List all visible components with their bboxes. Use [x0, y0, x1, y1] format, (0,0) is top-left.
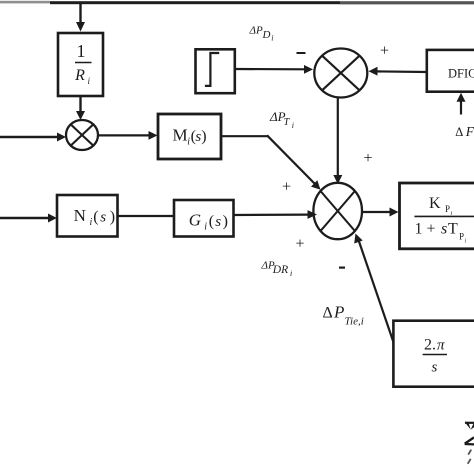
wire from S1 to Mi(s): [98, 131, 158, 140]
svg-text:ΔP: ΔP: [249, 25, 263, 37]
label ΔP_Ti: [269, 109, 294, 130]
svg-text:R: R: [74, 67, 85, 84]
svg-text:P: P: [333, 303, 344, 322]
svg-text:T: T: [448, 221, 458, 238]
svg-text:K: K: [429, 195, 441, 212]
svg-text:i: i: [292, 121, 294, 130]
block DFIG (cropped at right edge): [427, 50, 474, 92]
svg-text:M: M: [173, 126, 188, 145]
svg-text:i: i: [204, 222, 207, 233]
label ΔP_DRi: [261, 260, 293, 279]
block 1/Ri: [58, 33, 103, 96]
wire from Gi(s) into S3: [234, 210, 318, 219]
svg-text:+: +: [380, 43, 389, 60]
svg-text:+: +: [295, 236, 304, 253]
svg-text:DR: DR: [272, 264, 288, 276]
wire from S3 into Kp block: [362, 208, 399, 217]
svg-text:Δ: Δ: [455, 125, 463, 139]
block 2.pi/s (cropped at right edge): [393, 321, 474, 387]
cropped Δ glyph fragment (bottom right corner): [465, 437, 474, 444]
svg-text:(: (: [209, 213, 214, 230]
minus sign (load input of S2): [297, 52, 306, 54]
svg-text:+: +: [282, 179, 291, 196]
label ΔP_Tie,i: [323, 303, 364, 328]
svg-text:2.: 2.: [424, 337, 436, 354]
summing junction S3 (circle with X): [313, 183, 362, 239]
block Mi(s): [158, 114, 221, 159]
wire from DFIG block into S2: [369, 67, 428, 76]
dead band block: [196, 49, 235, 93]
wire from Mi(s) right then diagonal into summing junction S3: [221, 135, 321, 190]
svg-text:): ): [201, 128, 206, 145]
svg-text:N: N: [74, 206, 86, 225]
block Ni(s): [57, 195, 118, 237]
wire from S2 down into S3: [333, 98, 342, 185]
svg-text:Δ: Δ: [323, 305, 333, 322]
wire from 2.pi/s block up-left into S3: [354, 234, 393, 343]
wire (top cropped bus line): [0, 1, 474, 5]
svg-text:i: i: [271, 34, 273, 43]
svg-text:s: s: [215, 214, 221, 230]
svg-text:s: s: [441, 221, 447, 238]
svg-text:D: D: [262, 29, 271, 41]
cropped italic text fragments (bottom right corner): [468, 450, 472, 464]
wire from Ni(s) to Gi(s): [118, 215, 175, 217]
wire from 1/Ri down to summing junction S1: [76, 96, 85, 120]
block Gi(s): [174, 200, 234, 237]
svg-text:(: (: [93, 209, 98, 226]
svg-text:F: F: [465, 124, 474, 139]
label ΔF: [455, 124, 474, 139]
svg-text:i: i: [90, 217, 93, 228]
wire from top bus down into 1/Ri with arrowhead: [76, 3, 85, 32]
svg-text:P: P: [459, 232, 464, 242]
svg-text:): ): [110, 209, 115, 226]
svg-text:1 +: 1 +: [415, 221, 436, 238]
svg-text:G: G: [189, 211, 201, 230]
summing junction S1 (multiplier circle with X): [66, 120, 98, 150]
minus sign (tie-line input of S3): [339, 267, 345, 269]
svg-text:Tie,i: Tie,i: [345, 316, 364, 328]
svg-text:DFIG: DFIG: [448, 67, 474, 81]
label ΔP_Di: [249, 25, 274, 43]
wire from dead band block into summing junction S2: [235, 65, 313, 74]
svg-text:): ): [223, 213, 228, 230]
svg-text:s: s: [100, 210, 106, 226]
svg-text:s: s: [432, 360, 438, 376]
svg-text:i: i: [290, 269, 292, 278]
svg-text:π: π: [437, 338, 445, 354]
block Kp/(1+sTp) (cropped at right edge): [400, 183, 474, 249]
svg-text:P: P: [445, 204, 450, 214]
svg-text:+: +: [363, 150, 372, 167]
wire from left edge into summing junction S1: [0, 133, 66, 142]
cropped arrowhead fragment (bottom right corner): [465, 422, 474, 430]
wire from left edge into Ni(s): [0, 214, 57, 223]
summing junction S2 (circle with X): [314, 49, 367, 98]
wire arrow up into DFIG bottom (ΔF input): [457, 93, 466, 115]
svg-text:1: 1: [77, 41, 86, 61]
